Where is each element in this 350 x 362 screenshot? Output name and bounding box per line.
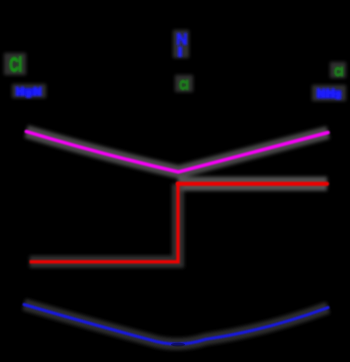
svg-text:Cl: Cl — [334, 67, 343, 79]
svg-text:N: N — [176, 32, 187, 49]
svg-text:Cl: Cl — [179, 79, 188, 93]
svg-text:Cl: Cl — [10, 54, 22, 77]
